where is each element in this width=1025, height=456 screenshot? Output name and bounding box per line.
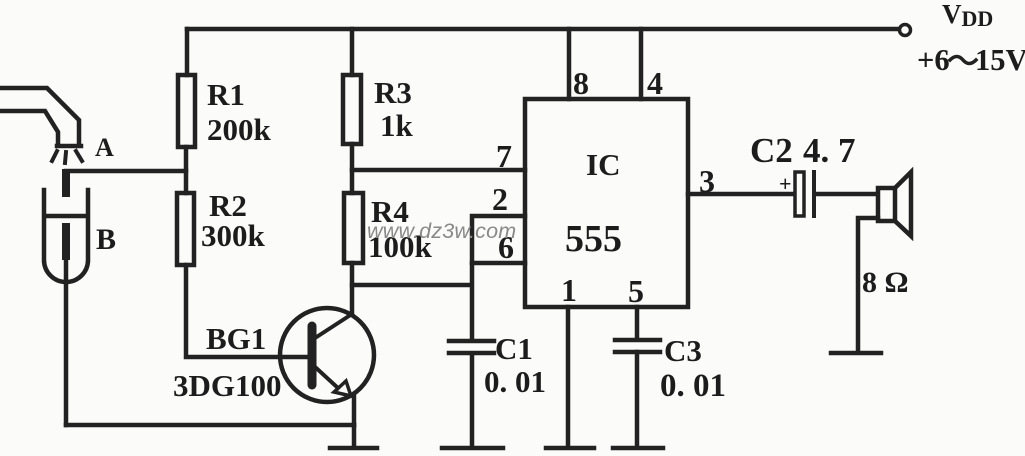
svg-text:200k: 200k (207, 112, 272, 147)
wire pin2/6 loop (472, 216, 525, 263)
svg-text:5: 5 (628, 273, 644, 309)
resistor R3 (343, 75, 361, 144)
svg-text:C2: C2 (750, 131, 793, 170)
svg-text:A: A (95, 133, 114, 162)
svg-text:1k: 1k (380, 108, 414, 143)
electrode top in tube B (62, 173, 70, 193)
VDD terminal (900, 25, 911, 36)
wire R1 to R2 (184, 147, 189, 193)
capacitor C1 (449, 341, 494, 353)
wire bottom rail to emitter ground (66, 423, 354, 428)
wire R3 to R4, pin7 branch (350, 144, 355, 193)
svg-text:www.dz3w.com: www.dz3w.com (367, 219, 516, 243)
transistor BG1 (280, 308, 374, 402)
svg-text:VDD: VDD (942, 0, 993, 31)
wire rail corner down to R1 (185, 29, 190, 75)
wire pin 4 (639, 29, 644, 99)
nozzle A spout (0, 88, 81, 146)
capacitor C2 (795, 172, 804, 216)
wire rail down to R3 (350, 29, 355, 75)
svg-text:IC: IC (586, 147, 620, 182)
transistor BG1 collector wire (350, 285, 355, 314)
svg-text:3: 3 (699, 163, 715, 199)
svg-text:8 Ω: 8 Ω (862, 266, 909, 299)
svg-text:3DG100: 3DG100 (173, 368, 282, 403)
wire top VDD rail (187, 27, 898, 32)
emitter arrowhead (334, 381, 351, 396)
speaker (878, 188, 895, 221)
svg-text:R1: R1 (207, 77, 245, 112)
tilde of +6~15V (950, 57, 976, 64)
wire pin 7 (352, 168, 525, 173)
ground (emitter) (330, 425, 377, 448)
svg-text:2: 2 (492, 181, 508, 217)
svg-text:1: 1 (561, 272, 577, 308)
wire pin 5 / capacitor C3 (613, 307, 663, 448)
svg-text:15V: 15V (975, 43, 1025, 77)
svg-text:B: B (96, 223, 116, 256)
svg-text:+: + (779, 171, 792, 196)
wire speaker to ground (831, 218, 881, 353)
svg-text:7: 7 (496, 138, 512, 174)
tube B (44, 190, 88, 282)
svg-text:C3: C3 (664, 333, 702, 368)
wire pin 1 (546, 307, 594, 448)
svg-text:300k: 300k (201, 218, 266, 253)
wire tube B bottom down (64, 256, 69, 425)
svg-text:0. 01: 0. 01 (484, 364, 546, 399)
IC 555 body (525, 99, 688, 307)
wire pin 3 (688, 192, 792, 197)
svg-text:R3: R3 (374, 75, 412, 110)
wire R4 bottom to node (352, 263, 471, 285)
svg-text:4: 4 (647, 65, 663, 101)
svg-text:8: 8 (573, 65, 589, 101)
wire R2 bottom to base (186, 265, 306, 357)
wire pin 8 (567, 29, 572, 99)
wire node A to R1R2 junction (66, 169, 186, 174)
svg-text:555: 555 (565, 218, 622, 260)
svg-text:BG1: BG1 (206, 321, 266, 356)
resistor R1 (178, 75, 195, 147)
resistor R2 (177, 193, 194, 265)
spray rays (52, 151, 82, 163)
wire node to C1 (470, 263, 475, 340)
electrode bottom in tube B (62, 227, 70, 256)
svg-text:0. 01: 0. 01 (660, 368, 726, 404)
svg-text:+6: +6 (917, 43, 950, 77)
resistor R4 (344, 193, 363, 263)
svg-text:4. 7: 4. 7 (803, 131, 856, 170)
svg-text:C1: C1 (495, 331, 533, 366)
